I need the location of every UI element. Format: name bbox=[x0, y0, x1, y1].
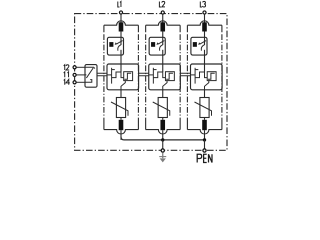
wire terminal 14 to contact box bbox=[76, 81, 85, 83]
NO contact wire (14) bbox=[85, 80, 92, 83]
spark-gap switching element (box with step curve) L3 bbox=[207, 72, 216, 81]
terminal 12 bbox=[73, 66, 76, 69]
wire disconnector box to spark-gap box L2 bbox=[162, 55, 164, 64]
terminal 11 bbox=[73, 73, 76, 76]
fuse/disconnector element (black) L1 top bbox=[119, 22, 124, 31]
wire bus to earth terminal bbox=[162, 140, 164, 149]
triggered spark gap unit box L3 bbox=[191, 64, 223, 90]
spark-gap switching element (box with step curve) L1 bbox=[124, 72, 133, 81]
disconnect contact (wire with break arc) L2 bbox=[162, 37, 164, 45]
signalling pair wires: contact box to module L1 bbox=[97, 73, 107, 76]
node 14 label bbox=[64, 79, 70, 84]
bottom disconnect element (black) L2 bbox=[160, 120, 165, 130]
remote signalling changeover contact box bbox=[85, 65, 97, 88]
thermal disconnector with status indicator L3 bbox=[191, 37, 207, 55]
earth/ground symbol (gray arrow) bbox=[162, 153, 164, 158]
earth terminal (open circle) bbox=[161, 149, 164, 152]
signalling pair wires: module L2 to module L3 bbox=[180, 73, 190, 76]
wire fuse to thermal disconnector box L1 bbox=[120, 31, 122, 37]
SPD protection module L2 (plug-in module outline) bbox=[146, 21, 181, 25]
wire terminal 12 to contact box bbox=[76, 66, 85, 68]
status indicator (filled square) L1 bbox=[109, 42, 113, 47]
junction at earth drop bbox=[161, 138, 164, 141]
wire varistor to bottom element L1 bbox=[120, 118, 122, 120]
trip arrow to indicator L1 bbox=[117, 41, 123, 44]
wire fuse to thermal disconnector box L2 bbox=[162, 31, 164, 37]
status indicator (filled square) L2 bbox=[151, 42, 155, 47]
wire spark-gap box to varistor L2 bbox=[162, 90, 164, 98]
changeover blade (common 11) bbox=[85, 68, 93, 78]
wire varistor to box bottom L3 bbox=[205, 81, 209, 90]
trigger sense line inside box L3 bbox=[191, 74, 196, 76]
fuse/disconnector element (black) L3 top bbox=[202, 22, 207, 31]
wire L1 terminal to fuse element bbox=[120, 14, 122, 23]
wire spark-gap box to varistor L3 bbox=[204, 90, 206, 98]
bottom disconnect element (black) L1 bbox=[119, 120, 124, 130]
node L3 terminal label bbox=[200, 1, 205, 7]
fuse/disconnector element (black) L2 top bbox=[160, 22, 165, 31]
triggered spark gap unit box L2 bbox=[149, 64, 181, 90]
trigger sense line inside box L2 bbox=[149, 74, 154, 76]
node L1 terminal label bbox=[118, 1, 121, 7]
disconnect contact (wire with break arc) L1 bbox=[120, 37, 122, 45]
node L2 terminal label bbox=[159, 1, 165, 7]
trigger sense line inside box L1 bbox=[107, 74, 112, 76]
terminal L1 (open circle on enclosure border) bbox=[119, 11, 122, 14]
wire L2 terminal to fuse element bbox=[162, 14, 164, 23]
NC contact wire (12) bbox=[85, 67, 95, 68]
wire module L1 to PEN bus bbox=[120, 130, 122, 140]
wire disconnector box to spark-gap box L1 bbox=[120, 55, 122, 64]
varistor L1 (rect with diagonal) bbox=[116, 98, 125, 118]
wire varistor to box bottom L2 bbox=[163, 81, 167, 90]
wire bus to PEN terminal bbox=[204, 140, 206, 149]
wire module L2 to PEN bus bbox=[162, 130, 164, 140]
device enclosure border (dash-dot) bbox=[75, 14, 227, 151]
terminal 14 bbox=[73, 81, 76, 84]
triggered spark gap unit box L1 bbox=[107, 64, 139, 90]
bottom disconnect element (black) L3 bbox=[202, 120, 207, 130]
spark-gap switching element (box with step curve) L2 bbox=[165, 72, 174, 81]
wire into spark-gap box top L3 bbox=[204, 64, 206, 72]
wire L3 terminal to fuse element bbox=[204, 14, 206, 23]
terminal PEN (open circle) bbox=[203, 149, 206, 152]
pulse/trigger stepped line L2 bbox=[153, 72, 165, 78]
node PEN label bbox=[197, 154, 212, 162]
wire fuse to thermal disconnector box L3 bbox=[204, 31, 206, 37]
pulse/trigger stepped line L1 bbox=[112, 72, 124, 78]
PEN collecting bus wire bbox=[121, 137, 205, 140]
wire disconnector box to spark-gap box L3 bbox=[204, 55, 206, 64]
wire into spark-gap box top L2 bbox=[162, 64, 164, 72]
wire spark-gap box to varistor L1 bbox=[120, 90, 122, 98]
thermal disconnector with status indicator L1 bbox=[107, 37, 123, 55]
node 12 label bbox=[64, 65, 69, 70]
wire module L3 to PEN bus bbox=[204, 130, 206, 140]
varistor L3 (rect with diagonal) bbox=[200, 98, 209, 118]
wire terminal 11 to contact box bbox=[76, 74, 85, 76]
node 11 label bbox=[64, 72, 69, 77]
disconnect contact (wire with break arc) L3 bbox=[204, 37, 206, 45]
signalling pair wires: module L1 to module L2 bbox=[139, 73, 149, 76]
trip arrow to indicator L2 bbox=[159, 41, 165, 44]
junction at PEN drop bbox=[203, 138, 206, 141]
wire varistor to bottom element L2 bbox=[162, 118, 164, 120]
terminal L3 (open circle on enclosure border) bbox=[203, 11, 206, 14]
terminal L2 (open circle on enclosure border) bbox=[161, 11, 164, 14]
status indicator (filled square) L3 bbox=[193, 42, 197, 47]
wire into spark-gap box top L1 bbox=[120, 64, 122, 72]
thermal disconnector with status indicator L2 bbox=[149, 37, 165, 55]
varistor L2 (rect with diagonal) bbox=[158, 98, 167, 118]
trip arrow to indicator L3 bbox=[200, 41, 206, 44]
wire varistor to box bottom L1 bbox=[121, 81, 125, 90]
SPD protection module L3 (plug-in module outline) bbox=[187, 21, 222, 25]
wire varistor to bottom element L3 bbox=[204, 118, 206, 120]
SPD protection module L1 (plug-in module outline) bbox=[104, 21, 138, 25]
pulse/trigger stepped line L3 bbox=[195, 72, 207, 78]
